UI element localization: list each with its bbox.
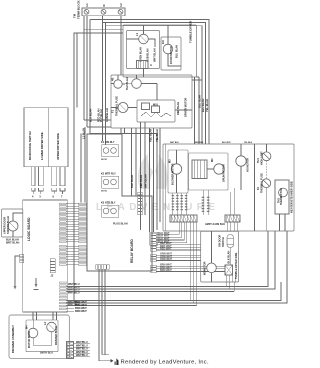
relay strip wires A to heater connector bbox=[156, 222, 179, 234]
svg-text:K3 HTR RLY: K3 HTR RLY bbox=[101, 202, 116, 205]
svg-text:RED BLAH: RED BLAH bbox=[149, 129, 153, 142]
wire step bbox=[102, 354, 109, 356]
svg-text:YEL BLAH: YEL BLAH bbox=[155, 129, 159, 142]
relay K1 bbox=[102, 145, 119, 157]
relay bottom wires bbox=[98, 270, 100, 361]
drawer lamp L3 bbox=[47, 322, 57, 332]
svg-text:BLU BLAH: BLU BLAH bbox=[175, 45, 179, 58]
wire feed array a bbox=[80, 134, 82, 203]
pin array group2 bbox=[60, 246, 67, 247]
svg-text:RED BLAH: RED BLAH bbox=[139, 175, 143, 188]
svg-text:UPPER DRYER SIDE: UPPER DRYER SIDE bbox=[56, 133, 60, 160]
relay right strip B bbox=[151, 244, 157, 246]
relay right strip C bbox=[151, 254, 157, 256]
relay bottom connector bbox=[96, 265, 98, 270]
wire door motor bottom bbox=[168, 54, 181, 66]
svg-text:THERMAL FUSE: THERMAL FUSE bbox=[115, 96, 119, 116]
svg-text:RED WHT: RED WHT bbox=[160, 248, 172, 251]
wire to credit icon bbox=[99, 360, 111, 362]
svg-text:RED BLK: RED BLK bbox=[195, 142, 204, 144]
wire left frame bbox=[74, 33, 123, 302]
svg-text:BLU BLAH: BLU BLAH bbox=[198, 95, 202, 108]
svg-text:HIGH LIMIT: HIGH LIMIT bbox=[260, 151, 264, 165]
drawer connector bbox=[67, 342, 74, 359]
door switch SW1 bbox=[8, 221, 18, 231]
switch box bbox=[24, 108, 68, 167]
svg-text:DRAWER ASSEMBLY: DRAWER ASSEMBLY bbox=[11, 325, 15, 353]
watermark LeadVenture flame logo bbox=[138, 154, 168, 189]
terminal L1 bbox=[84, 9, 89, 14]
credit arrow bbox=[111, 359, 114, 363]
wire element drop bbox=[143, 69, 145, 78]
svg-text:WHT BLK: WHT BLK bbox=[170, 142, 179, 144]
wire lamp top drop bbox=[143, 25, 145, 34]
relay strip wires C bbox=[156, 254, 201, 256]
strip2 drop wires bbox=[226, 222, 228, 231]
drawer inner box bbox=[26, 320, 58, 352]
svg-text:WHT BLAH: WHT BLAH bbox=[144, 174, 148, 188]
pin array group1 bbox=[60, 203, 67, 204]
svg-text:BLK BLAH: BLK BLAH bbox=[130, 175, 134, 188]
svg-text:ORN WHT: ORN WHT bbox=[160, 258, 172, 261]
belt switch capsule bbox=[227, 235, 234, 248]
switch box divider bbox=[48, 108, 50, 167]
wire capsule down bbox=[229, 248, 231, 266]
wire door motor top bbox=[167, 25, 169, 44]
heater motor HO bbox=[236, 156, 246, 166]
wire F2 down bbox=[265, 188, 267, 231]
plug 1 bbox=[32, 188, 35, 191]
wire bundle v2 bbox=[124, 128, 126, 134]
heater pin grid A bbox=[172, 195, 174, 196]
svg-text:A: A bbox=[150, 63, 152, 67]
strip2 up wires bbox=[230, 192, 232, 215]
wire f1 right bbox=[128, 107, 137, 109]
svg-text:NO NC: NO NC bbox=[101, 191, 108, 193]
wire TH1 top bbox=[266, 144, 268, 152]
terminal L2 bbox=[118, 9, 123, 14]
bus wire 6 bbox=[66, 305, 196, 307]
wire N3 drop bbox=[105, 23, 107, 145]
bus wire 2 bbox=[66, 231, 275, 289]
svg-text:SWITCH BLAH: SWITCH BLAH bbox=[6, 216, 10, 234]
wire top bus 1 bbox=[90, 20, 209, 145]
plug 4 bbox=[60, 188, 65, 191]
svg-text:N: N bbox=[102, 5, 106, 7]
svg-text:M3: M3 bbox=[168, 159, 172, 163]
svg-text:MSB BLAH: MSB BLAH bbox=[146, 48, 150, 62]
wire door switch feed bbox=[13, 213, 23, 221]
wire blower bottom bbox=[176, 174, 178, 193]
heater connector strip 2 bbox=[225, 215, 240, 222]
svg-text:M4: M4 bbox=[25, 325, 29, 329]
wire HO top bbox=[240, 144, 242, 156]
svg-text:M5 MOTOR: M5 MOTOR bbox=[204, 261, 207, 275]
svg-text:DRAWER BLAH: DRAWER BLAH bbox=[55, 326, 58, 345]
motor TH2 bbox=[132, 79, 142, 89]
plug 3 bbox=[52, 188, 57, 191]
svg-text:WHT/BLU: WHT/BLU bbox=[76, 354, 88, 357]
motor relay box bbox=[137, 100, 175, 122]
drawer connector wires bbox=[74, 343, 91, 345]
tumble drops to bus bbox=[225, 282, 227, 287]
wire M5 top bbox=[211, 231, 213, 263]
drawer motor M4 bbox=[28, 328, 38, 338]
connector leg 3 bbox=[52, 167, 57, 186]
wire THS down a bbox=[279, 214, 281, 231]
wire right drop x194.5 bbox=[194, 77, 196, 144]
wire bundle v8 bbox=[153, 128, 155, 232]
svg-text:TH1: TH1 bbox=[256, 158, 260, 163]
wire M5 bottom bbox=[211, 273, 213, 282]
heater connector strip 1 bbox=[170, 215, 197, 222]
wire bundle v5 bbox=[140, 122, 142, 230]
svg-text:SWITCH: SWITCH bbox=[222, 237, 225, 247]
svg-text:BLU WHT: BLU WHT bbox=[222, 142, 232, 144]
wire N2 drop bbox=[102, 16, 104, 141]
grid A column wires bbox=[172, 193, 174, 215]
door switch box bbox=[2, 209, 23, 237]
connector leg 4 bbox=[60, 167, 65, 186]
strip1 drop wires long bbox=[190, 222, 192, 301]
wire motor link bbox=[207, 168, 214, 170]
wire bundle v3 bbox=[131, 128, 133, 196]
wire N drop bbox=[89, 20, 91, 134]
svg-text:TERM BLOCK: TERM BLOCK bbox=[77, 0, 81, 19]
thermal fuse F2 bbox=[262, 179, 271, 188]
tumble box drop wires bbox=[225, 275, 227, 282]
blower motor M3 bbox=[171, 164, 181, 174]
svg-text:OVEN BLAH: OVEN BLAH bbox=[139, 47, 143, 62]
pin array group3 bbox=[60, 282, 67, 283]
relay contact b bbox=[152, 106, 160, 113]
svg-text:NO NC: NO NC bbox=[101, 159, 108, 161]
wire relay right bbox=[175, 109, 192, 111]
wires logic to drawer bbox=[32, 312, 34, 320]
drawer wires bbox=[32, 320, 34, 328]
svg-text:L1: L1 bbox=[85, 3, 89, 7]
lamp L1 bbox=[139, 34, 149, 44]
relay strip box bbox=[150, 232, 158, 245]
svg-text:RED BLAH: RED BLAH bbox=[176, 102, 180, 115]
wire branch y29.8 bbox=[84, 29, 123, 31]
wire left cells bbox=[15, 256, 20, 280]
logic connector cells left bbox=[20, 254, 24, 257]
svg-text:THERMAL FUSE: THERMAL FUSE bbox=[260, 173, 264, 193]
relay zigzag bbox=[141, 112, 171, 117]
wire TH1-F2 dashed bbox=[266, 161, 268, 179]
bus wire 4 bbox=[66, 282, 281, 301]
heater pin grid B bbox=[202, 197, 205, 198]
wire oven right top bbox=[192, 79, 202, 81]
svg-text:DRUM MOTOR: DRUM MOTOR bbox=[222, 164, 226, 182]
arrow symbol inner bbox=[35, 278, 37, 284]
svg-text:M2: M2 bbox=[210, 158, 214, 162]
svg-text:BRN WHT: BRN WHT bbox=[75, 310, 87, 313]
blower sub box bbox=[168, 150, 188, 193]
relay right strip D bbox=[151, 265, 157, 267]
bus wire 5 bbox=[66, 231, 287, 303]
svg-text:YEL BLAH: YEL BLAH bbox=[205, 99, 209, 112]
thermal fuse F1 bbox=[118, 103, 128, 113]
svg-text:LOWER DRYER SIDE: LOWER DRYER SIDE bbox=[40, 132, 44, 160]
arrow symbol left bbox=[14, 280, 16, 286]
svg-text:THERMISTOR: THERMISTOR bbox=[279, 188, 283, 205]
svg-text:MOTOR BLAH: MOTOR BLAH bbox=[28, 331, 31, 348]
connector leg 1 bbox=[32, 167, 35, 186]
switch B4 bbox=[114, 80, 122, 88]
svg-text:RELAY BOARD: RELAY BOARD bbox=[130, 239, 134, 263]
wire top bus 3 bbox=[106, 26, 203, 144]
wire branch y133.5 bbox=[90, 134, 157, 231]
svg-text:DRYER MOTOR: DRYER MOTOR bbox=[184, 98, 188, 117]
element A bbox=[137, 61, 149, 69]
wire tumble right bbox=[197, 76, 200, 78]
terminal N bbox=[101, 9, 106, 14]
svg-text:BRN WHT: BRN WHT bbox=[160, 269, 172, 272]
wire THS down b bbox=[284, 214, 286, 231]
svg-text:SMTH BLU: SMTH BLU bbox=[40, 352, 53, 355]
svg-text:L2: L2 bbox=[119, 3, 123, 7]
svg-text:BLOWER MOTOR: BLOWER MOTOR bbox=[171, 163, 175, 185]
grid B column wires bbox=[202, 190, 204, 215]
svg-text:Rendered by LeadVenture, Inc.: Rendered by LeadVenture, Inc. bbox=[121, 359, 209, 365]
svg-text:DO: DO bbox=[161, 40, 165, 44]
svg-text:UPPER DOOR: UPPER DOOR bbox=[3, 217, 7, 234]
wire bundle v9 bbox=[159, 128, 161, 222]
wire left frame 2 bbox=[76, 33, 78, 108]
wire f1 left bbox=[111, 107, 118, 109]
tumble dryer box bbox=[123, 25, 197, 77]
wire TH2 stub bbox=[136, 75, 138, 79]
svg-text:WHT BLAH: WHT BLAH bbox=[6, 242, 20, 245]
door motor DO bbox=[163, 44, 173, 54]
relay board column connector bbox=[138, 192, 143, 195]
wire th2 down bbox=[156, 84, 158, 101]
wire lamp feed bbox=[127, 38, 139, 40]
connector leg 2 bbox=[39, 167, 44, 186]
wire L1b drop bbox=[86, 16, 88, 127]
J2 connector bbox=[50, 259, 55, 261]
wire L2 drop into tumble box bbox=[120, 16, 122, 75]
heater left wire bbox=[165, 144, 167, 231]
high limit TH1 bbox=[262, 152, 271, 161]
bus wire 1 bbox=[66, 231, 268, 287]
wire bundle v6 bbox=[144, 122, 146, 215]
terminal block TB bbox=[82, 8, 125, 16]
wire branch y127 bbox=[87, 126, 111, 128]
wire L1 drop bbox=[83, 16, 85, 120]
svg-text:M01: M01 bbox=[153, 104, 158, 107]
thermistor box bbox=[275, 180, 289, 214]
svg-text:PLUG BLAH: PLUG BLAH bbox=[113, 223, 128, 226]
plug 2 bbox=[39, 188, 44, 191]
wire HO bottom bbox=[240, 166, 242, 190]
drum motor M2 bbox=[214, 164, 224, 174]
svg-text:K1 HSI RLY: K1 HSI RLY bbox=[101, 141, 115, 144]
svg-text:K2 MTR RLY: K2 MTR RLY bbox=[101, 173, 116, 176]
relay board outline bbox=[87, 134, 152, 271]
svg-text:LOGIC BOARD: LOGIC BOARD bbox=[27, 217, 31, 241]
credit icon flame bbox=[115, 358, 119, 365]
wire door switch out bbox=[12, 231, 14, 237]
wire feed array b bbox=[84, 127, 86, 203]
tumble motor box bbox=[201, 231, 239, 282]
svg-text:AM0T AA0N BLK: AM0T AA0N BLK bbox=[205, 223, 225, 226]
bus wire 3 bbox=[66, 291, 234, 293]
heater divider bbox=[254, 144, 256, 231]
wire lamp to element bbox=[148, 39, 155, 47]
svg-text:WHT BLAH: WHT BLAH bbox=[153, 48, 157, 62]
wire branch y120 bbox=[84, 119, 111, 121]
wire oven top wires bbox=[111, 83, 114, 85]
wire bundle v4 bbox=[135, 128, 137, 196]
tumble inner box B bbox=[161, 37, 181, 70]
svg-text:4B: 4B bbox=[111, 78, 115, 81]
tumble inner box A bbox=[127, 31, 160, 69]
svg-text:HO MOTOR: HO MOTOR bbox=[246, 158, 250, 172]
svg-text:HEATER/STEAMER SIDE: HEATER/STEAMER SIDE bbox=[290, 181, 294, 213]
logic lower label rows bbox=[66, 301, 74, 303]
oven box bbox=[111, 75, 192, 128]
wire bundle v7 bbox=[149, 128, 151, 232]
drawer assembly box bbox=[9, 315, 69, 358]
wire right drop x199 bbox=[198, 77, 200, 144]
winding box bbox=[192, 160, 207, 179]
wire bundle v1 bbox=[120, 128, 122, 134]
wire blower top bbox=[176, 150, 178, 164]
motor sub box bbox=[189, 153, 229, 190]
svg-text:TUMBLE DRYER: TUMBLE DRYER bbox=[189, 21, 193, 43]
motor M5 bbox=[207, 263, 217, 273]
relay strip wires D bbox=[156, 265, 225, 267]
thermistor THS bbox=[279, 188, 288, 197]
svg-text:YEL BLK: YEL BLK bbox=[244, 142, 253, 144]
wire top bus 2 bbox=[103, 23, 206, 145]
heater box bbox=[163, 144, 294, 231]
relay K2 bbox=[102, 176, 119, 188]
wire switch B4 stub bbox=[117, 75, 119, 80]
logic board U1 bbox=[23, 200, 68, 312]
relay right strip A bbox=[151, 233, 157, 235]
relay contact a bbox=[142, 103, 150, 110]
svg-text:DOOR MOTOR: DOOR MOTOR bbox=[169, 46, 173, 64]
relay K3 bbox=[102, 205, 119, 217]
svg-text:WHT BLU: WHT BLU bbox=[68, 292, 80, 295]
svg-text:MICROWAVE SWITCH: MICROWAVE SWITCH bbox=[28, 131, 32, 160]
relay strip wires B bbox=[156, 244, 201, 246]
plug in tumble box bbox=[225, 265, 233, 275]
